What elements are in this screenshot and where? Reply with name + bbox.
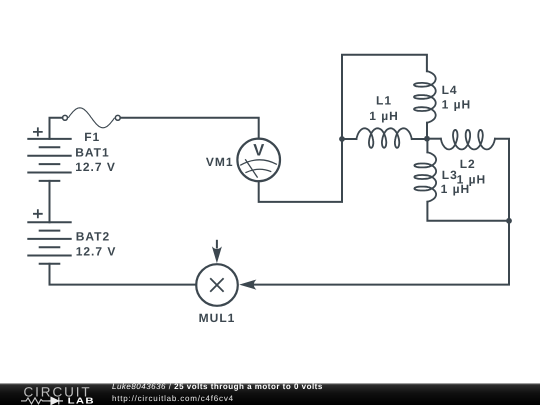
multiplier MUL1 right input arrowhead bbox=[239, 280, 256, 290]
svg-text:LAB: LAB bbox=[68, 396, 95, 405]
svg-text:L4: L4 bbox=[442, 83, 458, 97]
wire fuse F1 to VM1 top bbox=[120, 118, 258, 139]
multiplier MUL1 top input arrowhead bbox=[212, 246, 222, 263]
wire node A up and over to L4 top bbox=[342, 55, 427, 139]
svg-text:MUL1: MUL1 bbox=[199, 311, 236, 325]
wire BAT2 minus to MUL1 output bbox=[50, 264, 197, 285]
svg-text:12.7 V: 12.7 V bbox=[76, 244, 117, 258]
svg-text:1 µH: 1 µH bbox=[369, 109, 399, 123]
svg-text:L2: L2 bbox=[460, 157, 476, 171]
voltmeter VM1 bbox=[237, 139, 280, 182]
node C junction dot bbox=[506, 218, 512, 224]
inductor L3 bbox=[414, 152, 436, 201]
wire node B to L2 bbox=[427, 138, 441, 140]
svg-text:L3: L3 bbox=[442, 168, 458, 182]
inductor L1 bbox=[356, 128, 411, 148]
svg-text:F1: F1 bbox=[84, 130, 100, 144]
wire L2 right down through node C to MUL1 right input bbox=[253, 139, 510, 285]
battery BAT1 plus sign bbox=[33, 127, 43, 136]
svg-text:BAT2: BAT2 bbox=[76, 229, 110, 243]
svg-text:Luke8043636 / 25 volts through: Luke8043636 / 25 volts through a motor t… bbox=[112, 382, 323, 391]
wire L3 bottom to node C bbox=[427, 202, 509, 221]
CircuitLab logo diode bbox=[49, 397, 64, 404]
svg-text:VM1: VM1 bbox=[206, 155, 234, 169]
wire node B to L3 top bbox=[426, 139, 428, 153]
wire L4 bottom to node B bbox=[426, 123, 428, 139]
node B junction dot bbox=[424, 136, 430, 142]
wire L1 to node B bbox=[412, 138, 427, 140]
svg-text:V: V bbox=[253, 141, 264, 159]
node A junction dot bbox=[339, 136, 345, 142]
wire BAT1 minus to BAT2 plus bbox=[49, 181, 51, 222]
inductor L4 bbox=[414, 71, 436, 123]
wire BAT1 plus terminal to fuse F1 bbox=[50, 118, 63, 139]
svg-text:L1: L1 bbox=[376, 93, 392, 107]
fuse F1 bbox=[63, 108, 121, 128]
svg-text:http://circuitlab.com/c4f6cv4: http://circuitlab.com/c4f6cv4 bbox=[112, 394, 234, 403]
multiplier MUL1 bbox=[196, 264, 238, 306]
battery BAT1 bbox=[27, 139, 71, 181]
svg-text:12.7 V: 12.7 V bbox=[75, 160, 116, 174]
wire MUL1 top input stub bbox=[216, 241, 218, 248]
CircuitLab logo resistor zigzag bbox=[21, 398, 49, 404]
wire VM1 bottom to node A bbox=[259, 139, 342, 202]
wire node A to L1 bbox=[342, 138, 356, 140]
inductor L2 bbox=[441, 130, 495, 150]
svg-text:BAT1: BAT1 bbox=[75, 146, 109, 160]
svg-text:1 µH: 1 µH bbox=[441, 182, 471, 196]
svg-text:1 µH: 1 µH bbox=[442, 98, 472, 112]
battery BAT2 plus sign bbox=[33, 209, 43, 218]
battery BAT2 bbox=[27, 222, 71, 263]
